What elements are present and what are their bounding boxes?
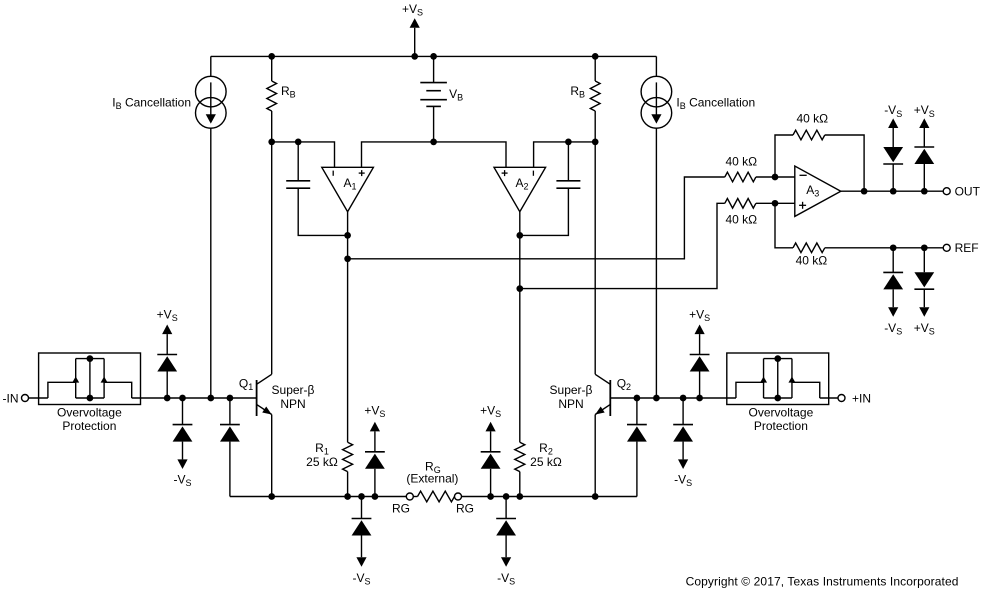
svg-text:25 kΩ: 25 kΩ [530, 455, 562, 469]
svg-text:Overvoltage: Overvoltage [57, 406, 122, 420]
svg-text:Protection: Protection [754, 419, 808, 433]
svg-text:RG: RG [392, 501, 410, 515]
svg-text:NPN: NPN [558, 397, 583, 411]
svg-text:Overvoltage: Overvoltage [749, 406, 814, 420]
svg-text:40 kΩ: 40 kΩ [796, 254, 828, 268]
svg-text:Super-β: Super-β [272, 383, 315, 397]
svg-text:NPN: NPN [280, 397, 305, 411]
svg-text:Copyright © 2017, Texas Instru: Copyright © 2017, Texas Instruments Inco… [686, 575, 959, 589]
svg-text:RG: RG [456, 501, 474, 515]
svg-text:Protection: Protection [62, 419, 116, 433]
svg-text:(External): (External) [406, 472, 458, 486]
svg-text:25 kΩ: 25 kΩ [306, 455, 338, 469]
svg-text:REF: REF [955, 241, 979, 255]
svg-text:40 kΩ: 40 kΩ [796, 112, 828, 126]
svg-text:40 kΩ: 40 kΩ [725, 213, 757, 227]
svg-text:-IN: -IN [3, 391, 19, 405]
svg-text:OUT: OUT [955, 185, 981, 199]
svg-text:IB​ Cancellation: IB​ Cancellation [112, 95, 191, 111]
svg-text:IB​ Cancellation: IB​ Cancellation [676, 95, 755, 111]
svg-text:+IN: +IN [852, 391, 871, 405]
svg-text:40 kΩ: 40 kΩ [725, 155, 757, 169]
svg-text:Super-β: Super-β [550, 383, 593, 397]
